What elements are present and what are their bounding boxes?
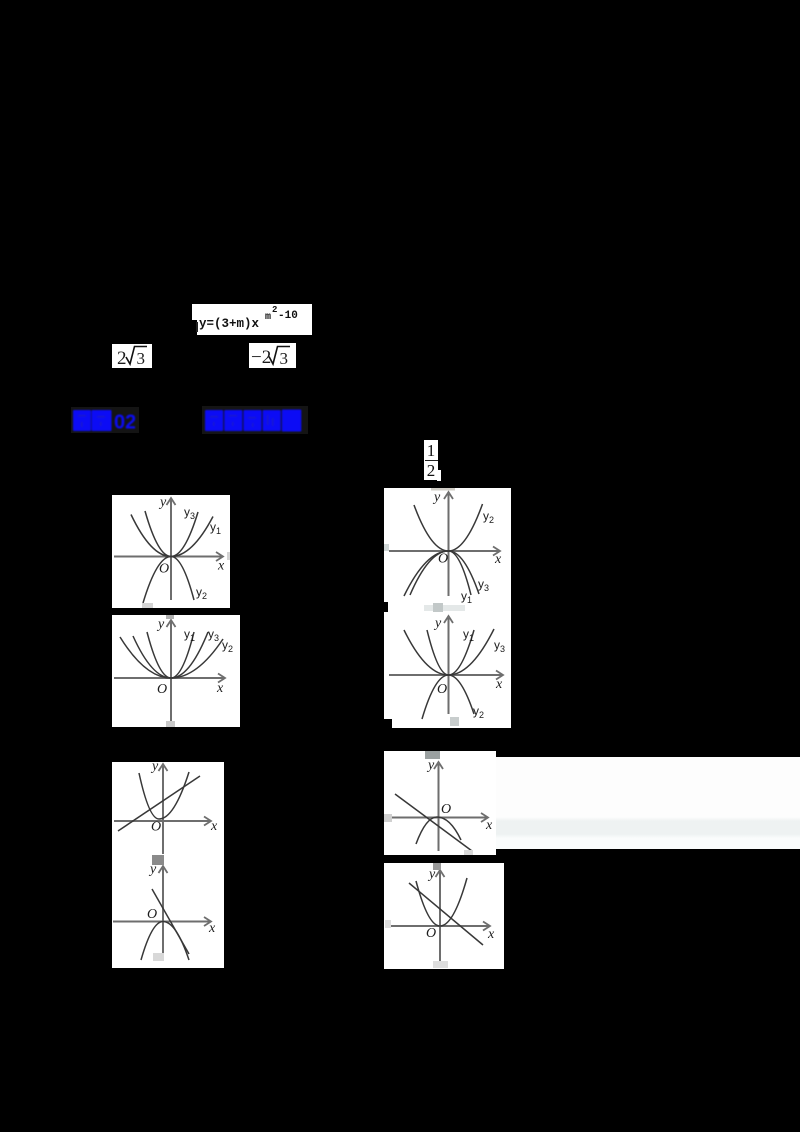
- svg-text:y3: y3: [494, 638, 505, 654]
- svg-text:O: O: [437, 682, 447, 697]
- svg-text:x: x: [210, 819, 218, 834]
- svg-text:O: O: [426, 926, 436, 941]
- svg-text:2: 2: [117, 348, 127, 368]
- svg-text:x: x: [495, 677, 503, 692]
- svg-text:y2: y2: [483, 509, 494, 525]
- svg-text:y3: y3: [184, 505, 195, 521]
- svg-text:x: x: [217, 559, 225, 574]
- svg-text:3: 3: [280, 349, 289, 368]
- svg-text:O: O: [157, 682, 167, 697]
- svg-text:y2: y2: [222, 638, 233, 654]
- svg-text:y2: y2: [196, 585, 207, 601]
- svg-text:O: O: [147, 907, 157, 922]
- svg-text:y: y: [150, 762, 159, 774]
- svg-text:−2: −2: [251, 347, 271, 368]
- svg-text:y1: y1: [210, 520, 221, 536]
- svg-text:y3: y3: [478, 577, 489, 593]
- svg-text:y: y: [432, 490, 441, 505]
- svg-text:x: x: [485, 818, 493, 833]
- svg-text:y: y: [156, 617, 165, 632]
- svg-text:y: y: [426, 758, 435, 773]
- svg-text:O: O: [151, 820, 161, 835]
- svg-text:y1: y1: [463, 627, 474, 643]
- svg-text:y: y: [433, 616, 442, 631]
- svg-text:O: O: [159, 562, 169, 577]
- svg-text:3: 3: [137, 349, 146, 368]
- svg-text:y3: y3: [208, 627, 219, 643]
- svg-text:y2: y2: [473, 704, 484, 720]
- svg-text:x: x: [494, 552, 502, 567]
- svg-text:y: y: [158, 495, 167, 510]
- svg-text:y1: y1: [184, 627, 195, 643]
- svg-text:02: 02: [114, 412, 135, 433]
- svg-text:O: O: [438, 552, 448, 567]
- svg-text:O: O: [441, 802, 451, 817]
- svg-text:x: x: [216, 681, 224, 696]
- svg-text:x: x: [487, 927, 495, 942]
- svg-text:x: x: [208, 921, 216, 936]
